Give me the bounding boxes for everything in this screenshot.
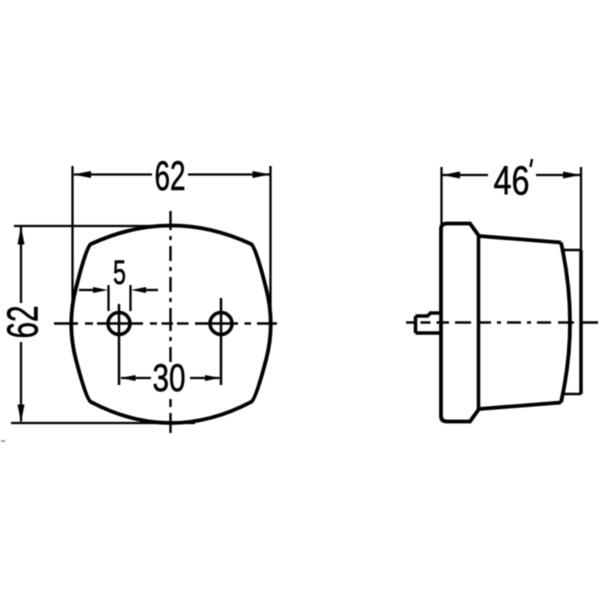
front vertical centerline — [169, 211, 171, 433]
pin — [416, 313, 442, 333]
svg-text:46: 46 — [494, 158, 530, 204]
svg-text:62: 62 — [155, 152, 186, 199]
body top/bottom — [479, 236, 561, 243]
scan artifact dash bottom-left — [1, 440, 5, 442]
svg-text:5: 5 — [113, 254, 126, 292]
svg-text:30: 30 — [153, 357, 186, 400]
lens rim — [563, 249, 582, 252]
front view outline — [71, 226, 271, 424]
flange — [441, 224, 479, 422]
lens face — [561, 243, 570, 403]
dim 62 left — [11, 226, 195, 423]
dim 30 — [121, 377, 220, 379]
front horizontal centerline — [54, 322, 277, 324]
hole left — [108, 313, 130, 335]
dim 5 — [79, 285, 158, 311]
dim 46 — [442, 167, 582, 251]
svg-text:62: 62 — [0, 306, 48, 339]
side centerline — [406, 321, 598, 323]
dim 62 top — [73, 166, 271, 310]
hole right — [210, 313, 232, 335]
